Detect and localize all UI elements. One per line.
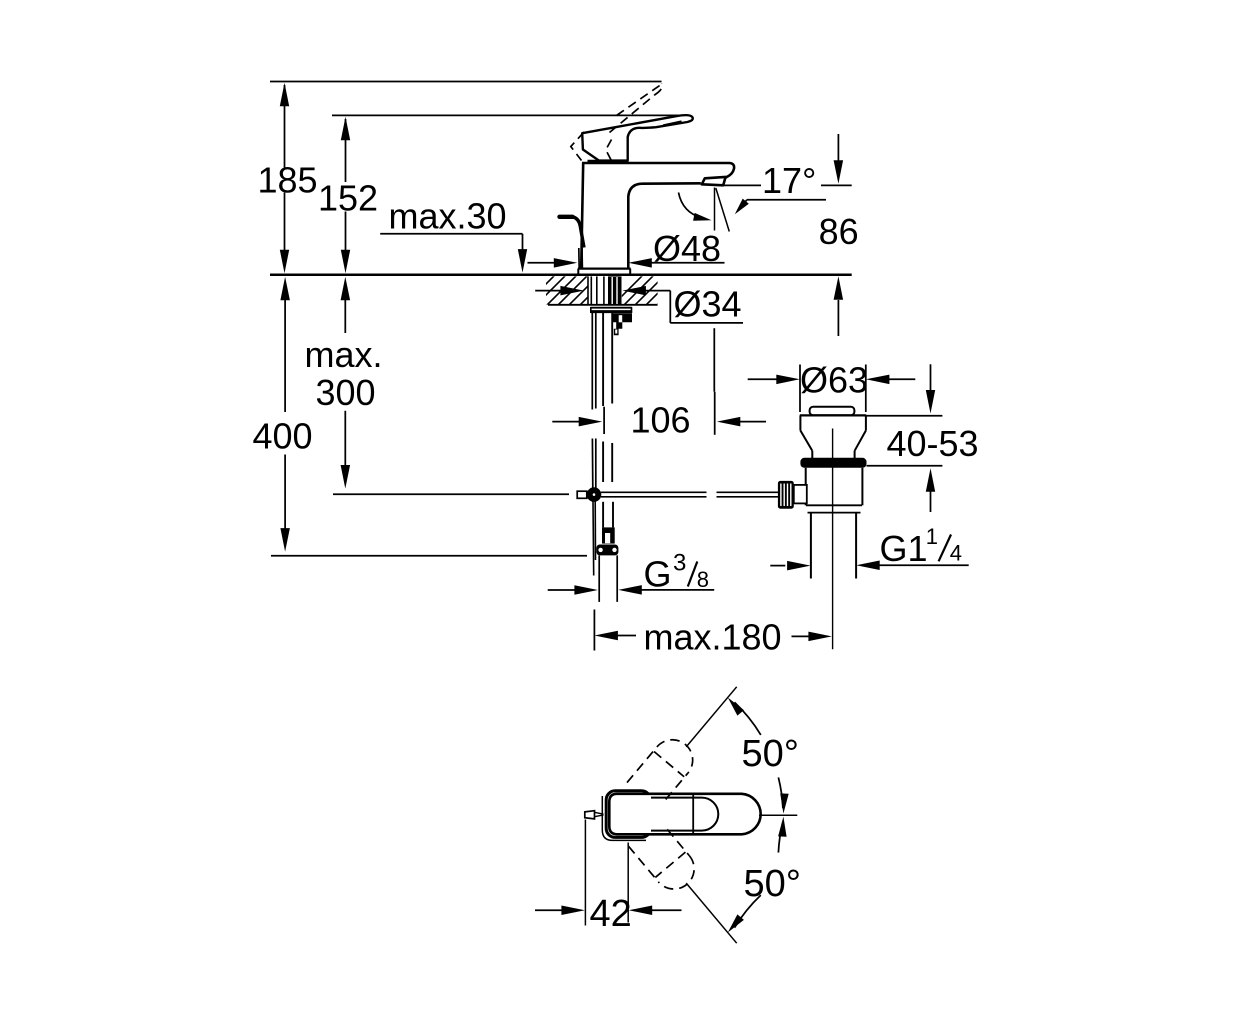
knurled adjustment screw	[778, 481, 794, 509]
base plinth	[578, 268, 631, 270]
svg-text:300: 300	[315, 372, 375, 413]
plan view: lever divider line	[692, 795, 694, 834]
aerator tip	[702, 177, 726, 185]
lever handle (side view)	[582, 115, 693, 160]
deck hatching right	[612, 275, 687, 306]
svg-text:G1: G1	[880, 528, 928, 569]
svg-text:1: 1	[926, 524, 938, 549]
svg-text:max.180: max.180	[644, 616, 782, 657]
dark gap between handle and body	[588, 160, 629, 164]
svg-text:86: 86	[819, 211, 859, 252]
dimension 86	[837, 134, 839, 161]
dimension diameter 48	[528, 262, 555, 264]
connector flange nut	[596, 545, 618, 556]
drain valve body	[810, 407, 855, 415]
pop-up rod lower section	[592, 502, 595, 576]
plan view: lever handle	[609, 794, 760, 835]
plan view horizontal centerline	[759, 814, 797, 816]
dimension 106	[552, 421, 580, 423]
label 17 degrees with leader	[724, 184, 762, 186]
valve lower body	[805, 468, 807, 506]
upper 50 deg extension line	[686, 687, 737, 747]
svg-text:42: 42	[590, 893, 632, 935]
dimension G 3/8	[548, 589, 575, 591]
svg-text:Ø63: Ø63	[800, 360, 868, 401]
dimension line G1 1/4	[770, 565, 785, 567]
dimension 42	[584, 820, 586, 926]
leader arrow to spout angle line	[747, 199, 826, 201]
dimension max.180	[594, 631, 618, 640]
svg-text:max.30: max.30	[389, 195, 507, 236]
svg-text:8: 8	[697, 567, 709, 592]
water stream vertical reference line	[714, 188, 716, 231]
G3/8 tailpiece tube	[598, 555, 600, 602]
svg-text:4: 4	[950, 541, 962, 566]
threaded shank through deck	[587, 276, 589, 304]
supply hose to G3/8	[602, 502, 604, 528]
faucet body outline	[581, 163, 583, 269]
reference line at hose-end level (400 bottom)	[271, 555, 587, 557]
valve flange (o-ring)	[800, 458, 866, 468]
horizontal linkage rod	[601, 491, 707, 493]
svg-text:G: G	[644, 554, 672, 595]
supply hoses below deck	[602, 313, 604, 406]
upper 50 deg arc with arrows	[735, 702, 761, 735]
svg-text:106: 106	[631, 399, 691, 440]
svg-text:max.: max.	[304, 334, 382, 375]
mounting washer below deck	[591, 307, 632, 309]
water stream 17-degree slanted line	[716, 188, 730, 232]
drain tailpipe	[810, 513, 812, 579]
label diameter 34 with leader	[535, 290, 561, 292]
plan view: dashed lever swung down 50 deg	[628, 820, 702, 897]
svg-text:152: 152	[318, 178, 378, 219]
dimension 400	[280, 277, 290, 301]
dashed raised lever position	[610, 95, 655, 133]
lever tip inner line	[663, 121, 682, 125]
plan view: faucet base body	[606, 791, 650, 838]
lower 50 deg extension line	[686, 883, 737, 943]
dimension 152	[345, 119, 347, 182]
dimension 40-53	[930, 364, 932, 390]
reference line at pop-up linkage level (max.300 bottom)	[333, 493, 569, 495]
top reference line (185 dim, lever raised height)	[270, 81, 662, 83]
valve centerline	[832, 429, 834, 650]
curved flow arrow	[679, 193, 703, 219]
svg-text:185: 185	[258, 160, 318, 201]
svg-text:50°: 50°	[742, 733, 799, 775]
plan view: outer shadow outline of base	[602, 796, 646, 840]
deck hatching left	[524, 275, 621, 306]
dimension diameter 63	[748, 378, 777, 380]
dimension max.300	[341, 277, 351, 301]
hose connector block	[602, 527, 615, 543]
svg-text:50°: 50°	[744, 863, 801, 905]
svg-text:40-53: 40-53	[887, 423, 979, 464]
lower 50 deg arc with arrows	[735, 895, 761, 928]
svg-text:3: 3	[673, 549, 686, 576]
countertop deck line	[270, 273, 852, 276]
deck underside line	[548, 304, 658, 306]
svg-text:17°: 17°	[762, 160, 816, 201]
spout outlet centerline down to 106 dim	[713, 328, 715, 392]
spout underside	[628, 183, 701, 268]
svg-text:Ø34: Ø34	[674, 283, 742, 324]
hoses resumed after break	[591, 439, 593, 489]
reference line (152 dim, lever tip height)	[332, 114, 679, 116]
stepped mounting bracket	[613, 313, 632, 335]
dimension 185	[284, 85, 286, 168]
svg-text:400: 400	[252, 415, 312, 456]
plan view: lever front section	[651, 798, 718, 831]
rod left end cap	[577, 491, 587, 498]
pop-up rod below deck	[591, 313, 593, 410]
pop-up knob rod behind body	[560, 215, 573, 219]
svg-text:Ø48: Ø48	[653, 228, 721, 269]
plan view: pop-up knob	[585, 811, 595, 819]
linkage ball joint	[587, 487, 602, 502]
plan view: dashed lever swung up 50 deg	[627, 731, 701, 808]
